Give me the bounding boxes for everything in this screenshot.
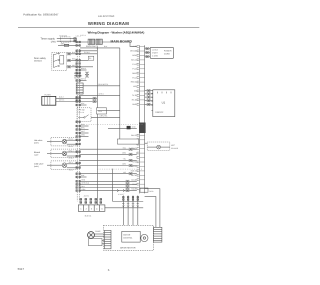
harness connector pin h3 xyxy=(76,187,81,189)
harness connector pin v2a xyxy=(76,151,81,153)
svg-text:(inlet): (inlet) xyxy=(34,142,39,145)
wire valve 1 out a xyxy=(67,139,80,141)
harness connector pin p10 xyxy=(76,75,81,77)
wire stub PNK xyxy=(79,176,86,178)
svg-text:PUMP: PUMP xyxy=(95,230,101,233)
wire valve 1 out b xyxy=(67,143,80,145)
main board connector J1 pin nubs xyxy=(137,46,139,190)
power cord connector pin xyxy=(145,48,149,50)
wire vertical bus V2 xyxy=(119,48,121,139)
svg-text:Timer supply: Timer supply xyxy=(41,37,56,40)
inline connector YEL xyxy=(129,159,133,161)
motor connector bar xyxy=(104,230,111,248)
wire harness to board BLU xyxy=(79,187,136,189)
harness connector pin dl3 xyxy=(76,66,81,68)
UI button ticks xyxy=(158,92,172,94)
svg-text:NTC: NTC xyxy=(132,161,136,164)
svg-text:ORG: ORG xyxy=(132,72,137,75)
svg-text:P1-2: P1-2 xyxy=(132,67,136,70)
door switch connector block P8 xyxy=(88,39,102,44)
fuse F2 xyxy=(64,44,69,46)
svg-text:2-2 2-1: 2-2 2-1 xyxy=(81,34,86,37)
bottom connector pins xyxy=(80,199,102,204)
wire motor bus xyxy=(113,201,144,203)
svg-text:GRN-YEL: GRN-YEL xyxy=(100,115,108,118)
harness connector pin WHT-9 xyxy=(76,80,81,82)
wire noise filter out L xyxy=(56,97,98,99)
wire timer supply N xyxy=(57,40,74,42)
wire board to UI y104.4 xyxy=(145,103,153,105)
harness connector pin PNK xyxy=(76,176,81,178)
interference suppressor box xyxy=(117,139,138,144)
svg-text:GND: GND xyxy=(132,103,137,106)
svg-text:BLU-1: BLU-1 xyxy=(69,138,74,141)
svg-text:5V: 5V xyxy=(134,90,137,93)
harness connector pin m3 xyxy=(76,132,81,134)
wire P11 wire to V2 xyxy=(83,85,120,87)
inline connector WHT-BLU xyxy=(126,183,130,185)
svg-text:Publication No. 5995545947: Publication No. 5995545947 xyxy=(23,12,59,16)
UI harness connector pin xyxy=(147,103,151,105)
wire door lock wire 1 xyxy=(67,53,98,55)
wire valve 3 out a xyxy=(67,163,80,165)
svg-text:WHT-BLU: WHT-BLU xyxy=(82,182,90,185)
harness connector pin h2 xyxy=(76,184,81,186)
wire V1 to V2 tie xyxy=(97,110,120,112)
motor phase pin pair 3 xyxy=(132,196,134,200)
inline connector GRN xyxy=(129,164,133,166)
svg-text:WHT-9: WHT-9 xyxy=(81,78,86,81)
harness connector pin v3b xyxy=(76,167,81,169)
svg-text:Wiring Diagram - Washer (ABQ14: Wiring Diagram - Washer (ABQ140NW0A) xyxy=(88,31,145,35)
wire pump wire 2 xyxy=(94,235,104,237)
svg-text:NTC: NTC xyxy=(171,144,176,147)
motor phase pin pair 2 xyxy=(127,196,129,200)
svg-text:VIO: VIO xyxy=(133,85,137,88)
harness connector pin nf2 xyxy=(76,100,81,102)
harness connector pin p9 xyxy=(76,72,81,74)
wire valve 2 out b xyxy=(67,155,80,157)
wire harness to board BLU xyxy=(79,148,136,150)
svg-text:GND: GND xyxy=(132,125,137,128)
UI harness connector pin xyxy=(147,100,151,102)
svg-text:DR-SW: DR-SW xyxy=(130,50,136,53)
wire harness to board RED xyxy=(79,180,136,182)
power cord terminal box xyxy=(150,47,173,58)
pressure switch S3 xyxy=(77,108,91,122)
wire thermistor lead 2 xyxy=(161,146,170,148)
wire board to power cord y48.7 xyxy=(145,48,151,50)
wire board to motor conn A xyxy=(145,189,160,228)
junction box P2 on door wire xyxy=(88,56,94,60)
wire vertical bus V3 xyxy=(112,169,114,202)
svg-text:P2: P2 xyxy=(89,57,91,60)
svg-text:G GRN: G GRN xyxy=(152,55,159,58)
harness bundle tie 1 xyxy=(79,124,143,126)
connector on P10 wire xyxy=(85,75,89,77)
wire stub GRY xyxy=(79,104,86,106)
inline connector VIO xyxy=(129,173,133,175)
svg-text:DR-B: DR-B xyxy=(149,190,154,193)
thermistor RT1 assembly xyxy=(147,142,170,150)
harness connector pin h4 xyxy=(76,190,81,192)
svg-text:1: 1 xyxy=(80,208,82,211)
svg-text:A1 B1: A1 B1 xyxy=(84,194,89,197)
svg-text:BLK-5: BLK-5 xyxy=(131,134,136,137)
svg-text:U1: U1 xyxy=(162,100,166,104)
harness bundle tie 2 xyxy=(97,168,143,170)
pump junction box xyxy=(89,239,103,246)
inline connector GRN xyxy=(126,190,130,192)
door lock assembly S2 xyxy=(52,52,67,70)
inline connector BLU xyxy=(126,186,130,188)
wire board to UI y100.7 xyxy=(145,100,153,102)
door lock plug 1 xyxy=(67,53,71,55)
harness connector pin m1 xyxy=(76,125,81,127)
UI harness connector pin xyxy=(147,93,151,95)
harness connector pin dl2 xyxy=(76,59,81,61)
harness connector pin nf2b xyxy=(76,101,81,103)
door lock switch contacts xyxy=(54,53,64,68)
motor phase connector 4 xyxy=(137,203,139,207)
svg-text:TX-D: TX-D xyxy=(132,94,137,97)
svg-text:PR SW: PR SW xyxy=(79,109,85,112)
drain pump P1 xyxy=(88,232,95,239)
wire valve 3 out b xyxy=(67,167,80,169)
harness connector pin v1a xyxy=(76,139,81,141)
harness connector pin aux1 xyxy=(76,63,81,65)
svg-text:P2-1: P2-1 xyxy=(132,76,136,79)
wire valve 1 feed xyxy=(47,141,62,143)
connector on filter wire L xyxy=(93,97,97,99)
svg-text:CORD: CORD xyxy=(164,53,170,56)
harness connector pin t1 xyxy=(76,41,81,43)
motor M1 symbol xyxy=(141,234,148,241)
wire pump wire 3 xyxy=(102,240,104,242)
main board connector J1 rails xyxy=(140,45,145,193)
door lock plug 2 xyxy=(67,59,71,61)
harness label cluster xyxy=(74,72,83,78)
main board connector J1 pin rungs (upper bank) xyxy=(140,47,145,105)
harness connector pin nf1b xyxy=(76,97,81,99)
wire harness to board VIO xyxy=(79,173,136,175)
noise filter Z1 xyxy=(42,96,56,105)
wire timer supply L1 xyxy=(57,38,74,40)
wire to door switch connector xyxy=(77,41,88,43)
svg-text:MOTOR: MOTOR xyxy=(123,234,131,237)
pressure switch contact xyxy=(78,115,88,118)
svg-text:ORG-1: ORG-1 xyxy=(69,149,74,152)
thermistor element xyxy=(157,145,161,149)
svg-text:6: 6 xyxy=(108,268,110,272)
harness connector pin v3a xyxy=(76,162,81,164)
wire L1 feed bus xyxy=(80,47,120,49)
svg-text:DRIVE MOTOR: DRIVE MOTOR xyxy=(120,247,136,250)
harness connector pin BRN-2 xyxy=(76,69,81,71)
wire harness to board GRN xyxy=(79,190,136,192)
svg-text:N WHT: N WHT xyxy=(152,52,159,55)
wire board to thermistor xyxy=(145,142,148,144)
svg-text:BLK-3: BLK-3 xyxy=(59,96,64,99)
svg-text:5917: 5917 xyxy=(18,267,25,271)
svg-text:BRN-2: BRN-2 xyxy=(81,67,86,70)
motor phase connector 2 xyxy=(127,203,129,207)
motor phase connector 1 xyxy=(122,203,124,207)
svg-text:BLU WHT-4: BLU WHT-4 xyxy=(99,83,109,86)
svg-text:P1 BLK: P1 BLK xyxy=(84,51,91,54)
harness connector pin nf1 xyxy=(76,96,81,98)
svg-text:SENSOR: SENSOR xyxy=(171,147,179,150)
drive motor assembly outline xyxy=(103,225,153,250)
harness connector pin v2b xyxy=(76,155,81,157)
harness connector pin m2 xyxy=(76,129,81,131)
wire noise filter out N xyxy=(56,101,98,103)
harness connector pin x1 xyxy=(76,173,81,175)
wire door lock wire 3 xyxy=(67,66,93,68)
svg-text:WHT: WHT xyxy=(81,130,85,133)
svg-text:CONTROL: CONTROL xyxy=(123,237,132,240)
inline connector ORG xyxy=(129,153,133,155)
harness connector pin h1 xyxy=(76,180,81,182)
connector on filter wire N xyxy=(93,100,97,102)
wire wire to V2 lower xyxy=(79,94,119,96)
harness connector block P11 xyxy=(76,83,83,94)
inline connector RED xyxy=(126,180,130,182)
header rule xyxy=(18,26,199,28)
bottom terminal block TB1 xyxy=(78,205,105,211)
wire valve 2 feed xyxy=(47,152,62,154)
wire board to power cord y52.5 xyxy=(145,52,151,54)
motor right connector xyxy=(154,227,162,242)
connector CN-A pin pair xyxy=(74,38,77,42)
wire motor phase 2 xyxy=(127,196,129,226)
harness connector pin t2 xyxy=(76,45,81,47)
svg-text:YEL-2: YEL-2 xyxy=(69,168,74,171)
svg-text:YEL-1: YEL-1 xyxy=(69,161,74,164)
svg-text:4: 4 xyxy=(96,208,98,211)
svg-text:RX-D: RX-D xyxy=(132,99,137,102)
door lock plug 3 xyxy=(67,66,71,68)
harness connector pin GRY xyxy=(76,104,81,106)
wire valve 3 feed xyxy=(47,164,62,166)
motor phase pin pair 4 xyxy=(137,196,139,200)
svg-text:ORG: ORG xyxy=(81,134,86,137)
user interface board U1 xyxy=(153,90,175,117)
wire board to UI y90.7 xyxy=(145,90,153,92)
wire harness to board GRN xyxy=(79,165,136,167)
svg-text:ON/OFF: ON/OFF xyxy=(155,111,164,114)
svg-text:BLK-2: BLK-2 xyxy=(131,59,136,62)
svg-text:WHT-3: WHT-3 xyxy=(59,99,64,102)
harness connector pin dl1 xyxy=(76,53,81,55)
wire board to UI y93.9 xyxy=(145,93,153,95)
svg-text:WIRING DIAGRAM: WIRING DIAGRAM xyxy=(88,21,129,26)
wire terminal block out xyxy=(105,207,143,209)
svg-text:(inlet): (inlet) xyxy=(34,165,39,168)
wire stub ORG xyxy=(79,136,88,138)
motor phase pin pair 1 xyxy=(123,196,125,200)
svg-text:5: 5 xyxy=(102,208,104,211)
wire pump wire 1 xyxy=(94,233,104,235)
harness connector pin m4 xyxy=(76,136,81,138)
svg-text:ORG: ORG xyxy=(122,152,127,155)
svg-text:NOTE 2: NOTE 2 xyxy=(74,77,81,80)
svg-text:(2W): (2W) xyxy=(51,41,56,44)
thermal fuse F1 xyxy=(60,37,70,42)
main board connector J1 net labels xyxy=(130,45,137,190)
UI harness connector pin xyxy=(147,90,151,92)
wire motor phase 1 xyxy=(122,196,124,226)
small connector CN-M xyxy=(140,188,148,192)
svg-text:E A 4 1: E A 4 1 xyxy=(85,214,92,217)
harness bundle rails xyxy=(77,49,79,201)
harness connector pin q0 xyxy=(76,121,81,123)
power cord connector pin xyxy=(145,51,149,53)
svg-text:valve: valve xyxy=(34,153,38,156)
svg-text:HOT-V: HOT-V xyxy=(131,170,137,173)
wire door lock wire 2 xyxy=(67,59,89,61)
wire door switch to main board pin 1 xyxy=(102,42,137,46)
UI harness connector pin xyxy=(147,96,151,98)
svg-text:COLD: COLD xyxy=(131,178,137,181)
wire stub BRN xyxy=(79,129,88,131)
svg-text:BLU-2: BLU-2 xyxy=(69,145,74,148)
harness connector pin v1b xyxy=(76,143,81,145)
wire stub BLK xyxy=(79,125,88,127)
wire chassis ground wire xyxy=(108,127,137,129)
svg-text:EFLS210TIW0: EFLS210TIW0 xyxy=(98,15,115,18)
inline connector BLU xyxy=(129,148,133,150)
node V1 junction xyxy=(97,47,98,48)
motor control module xyxy=(122,231,140,242)
wire thermistor lead 1 xyxy=(147,146,157,148)
wire vertical bus V1 xyxy=(96,48,98,205)
wire door lock feed xyxy=(80,50,97,52)
svg-text:BLCH: BLCH xyxy=(131,174,136,177)
wire board to power cord y56.6 xyxy=(145,56,151,58)
wire pump wire 4 xyxy=(102,243,104,245)
wire harness to board ORG xyxy=(79,153,136,155)
power cord connector pin xyxy=(145,56,149,58)
motor phase connector 3 xyxy=(132,203,134,207)
svg-text:L1 BLK: L1 BLK xyxy=(152,49,159,52)
svg-text:ORG-2: ORG-2 xyxy=(69,157,74,160)
svg-text:WHT: WHT xyxy=(132,147,137,150)
wire board to UI y97.1 xyxy=(145,96,153,98)
svg-text:P1-1: P1-1 xyxy=(132,63,136,66)
wire pressure switch out xyxy=(91,116,120,118)
main board connector J1 pin rungs (lower bank) xyxy=(140,135,145,188)
harness connector pin feed xyxy=(76,50,81,52)
chassis ground lug xyxy=(127,126,131,129)
UI left edge pin stubs xyxy=(151,93,153,110)
connector on P9 wire xyxy=(85,72,89,74)
svg-text:NEU: NEU xyxy=(132,54,136,57)
wire neutral branch xyxy=(58,44,80,46)
wire motor phase 3 xyxy=(132,196,134,226)
svg-text:interlock: interlock xyxy=(34,60,43,63)
svg-text:2: 2 xyxy=(86,208,88,211)
wire stub WHT-9 xyxy=(79,80,86,82)
connector box P4 xyxy=(97,108,107,114)
svg-text:YEL: YEL xyxy=(123,158,126,161)
svg-text:POWER: POWER xyxy=(164,50,172,53)
wire stub WHT xyxy=(79,132,88,134)
svg-text:3: 3 xyxy=(91,208,93,211)
cable splice chevrons xyxy=(117,189,125,192)
wire valve 2 out a xyxy=(67,151,80,153)
svg-text:RED-3: RED-3 xyxy=(131,81,136,84)
wire harness to board YEL xyxy=(79,159,136,161)
wire harness to board WHT-BLU xyxy=(79,183,136,185)
svg-text:MAIN BOARD: MAIN BOARD xyxy=(111,40,133,44)
main board power connector block (dark) xyxy=(139,123,146,134)
wire motor phase 4 xyxy=(137,196,139,226)
wire board to motor conn B xyxy=(145,197,156,228)
wire stub BRN-2 xyxy=(79,69,86,71)
